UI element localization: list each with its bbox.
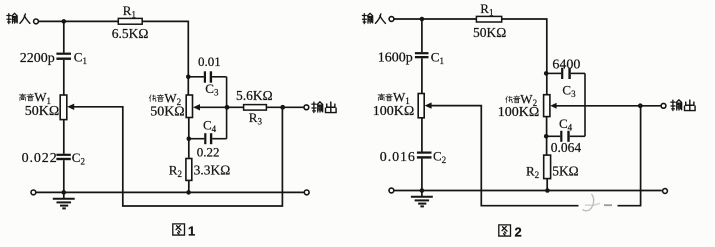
svg-text:50KΩ: 50KΩ	[473, 25, 506, 40]
wire C1 to W1	[63, 60, 65, 95]
wire junction to C1 (fig2)	[421, 19, 423, 52]
node input/C1 junction (fig2)	[420, 17, 425, 22]
node input/C1 junction	[62, 19, 67, 24]
watermark smudge (fades part of loop wire)	[579, 194, 618, 211]
wire W1 wiper loop (down and right to output node)	[73, 107, 282, 206]
label 图2 caption	[499, 225, 522, 240]
wiper arrow W2	[193, 104, 200, 110]
node C3 branch	[186, 75, 191, 80]
svg-text:3.3KΩ: 3.3KΩ	[194, 163, 231, 178]
node output junction	[280, 105, 285, 110]
wire R2 to ground rail	[188, 180, 190, 192]
svg-text:0.022: 0.022	[22, 151, 58, 166]
node C4 branch	[187, 136, 192, 141]
terminal output (fig2)	[661, 103, 666, 108]
svg-text:2200p: 2200p	[20, 51, 55, 66]
wire C4 to bridge vertical (fig2)	[570, 135, 585, 137]
svg-text:1600p: 1600p	[378, 51, 413, 66]
wire R1 to top-right corner	[142, 20, 188, 22]
svg-text:2: 2	[515, 225, 522, 240]
label 低音 (fig2)	[506, 96, 521, 103]
resistor R2 (3.3K)	[186, 159, 192, 181]
node wiper/bridge junction	[225, 105, 230, 110]
label 输出 (fig2 output)	[671, 100, 695, 111]
label 高音 (treble)	[19, 94, 33, 101]
terminal input (fig1)	[34, 19, 39, 24]
svg-text:100KΩ: 100KΩ	[498, 105, 540, 120]
capacitor C3 (6400)	[561, 68, 571, 79]
node R2/ground junction (fig2)	[545, 188, 550, 193]
ground symbol (fig2)	[411, 191, 433, 207]
svg-text:6.5KΩ: 6.5KΩ	[112, 26, 149, 41]
label 图1 caption	[173, 224, 195, 239]
wire C2 to ground rail	[63, 160, 65, 192]
capacitor C4 (0.22)	[204, 133, 212, 144]
wire junction to C1	[63, 21, 65, 52]
node C4 branch (fig2)	[544, 134, 549, 139]
capacitor C3 (0.01)	[204, 71, 212, 82]
wire W2 wiper to R3	[199, 106, 244, 108]
wire input to R1 (fig2)	[394, 18, 477, 20]
svg-text:0.01: 0.01	[198, 54, 221, 69]
wiper arrow W2 (fig2)	[550, 103, 556, 109]
label 输出 (fig1 output)	[312, 102, 336, 113]
wire to C4 (fig2)	[546, 135, 560, 137]
svg-text:0.016: 0.016	[380, 150, 416, 165]
svg-text:50KΩ: 50KΩ	[25, 104, 60, 119]
resistor R1 (50K fig2)	[476, 16, 501, 22]
wire C3 to bridge vertical (fig2)	[571, 72, 585, 74]
wire main vertical from R1 to W2	[187, 21, 189, 95]
terminal ground right (fig2)	[663, 189, 668, 194]
wire C3 to bridge vertical	[212, 76, 227, 78]
wire C1 to W1 (fig2)	[421, 58, 423, 93]
resistor R3 (5.6K)	[244, 105, 267, 111]
wire bridge vertical (fig2)	[584, 73, 586, 136]
label 输入 (fig1 input)	[7, 13, 30, 23]
wire ground rail (fig2)	[394, 190, 662, 192]
wire to C4	[189, 138, 204, 140]
wire ground rail (fig1)	[36, 191, 305, 193]
capacitor C2 (0.016)	[417, 152, 432, 159]
terminal input (fig2)	[389, 17, 394, 22]
wire W2 to C4 branch and R2 (fig2)	[546, 117, 548, 156]
resistor R2 (5K fig2)	[544, 155, 551, 179]
wire W1 wiper loop (fig2)	[430, 106, 640, 206]
wire W1 to C2	[63, 120, 65, 154]
node R2/ground junction	[186, 190, 191, 195]
node C3 branch (fig2)	[544, 71, 549, 76]
terminal ground left (fig2)	[389, 188, 394, 193]
terminal ground right (fig1)	[304, 190, 309, 195]
label 输入 (fig2 input)	[362, 13, 385, 23]
wire R3 to output	[266, 106, 304, 108]
capacitor C4 (0.064)	[560, 131, 570, 142]
wire R1 to top-right corner (fig2)	[502, 18, 547, 20]
label 低音 (bass)	[149, 95, 164, 102]
potentiometer W2	[186, 95, 192, 118]
capacitor C1 (2200p)	[56, 53, 71, 60]
svg-text:0.064: 0.064	[551, 140, 582, 155]
capacitor C2 (0.022)	[56, 154, 70, 161]
svg-text:5.6KΩ: 5.6KΩ	[236, 88, 273, 103]
svg-text:6400: 6400	[552, 57, 580, 72]
svg-text:50KΩ: 50KΩ	[150, 104, 185, 119]
label 高音 (fig2)	[378, 94, 392, 101]
node C2/ground junction	[62, 190, 67, 195]
wire W1 to C2 (fig2)	[421, 118, 423, 152]
wire to C3 (fig2)	[546, 72, 561, 74]
capacitor C1 (1600p)	[415, 52, 429, 58]
wire bridge vertical (fig1)	[226, 77, 228, 139]
wire to C3	[188, 76, 204, 78]
resistor R1 (6.5K)	[118, 18, 142, 24]
wire C4 to bridge vertical	[212, 138, 226, 140]
wiper arrow W1	[67, 104, 74, 110]
wiper arrow W1 (fig2)	[425, 102, 432, 108]
node C2/ground junction (fig2)	[420, 188, 425, 193]
potentiometer W2 (fig2)	[544, 95, 550, 117]
potentiometer W1 (fig2)	[418, 94, 424, 118]
svg-text:5KΩ: 5KΩ	[552, 164, 579, 179]
wire R2 to ground rail (fig2)	[546, 179, 548, 191]
terminal ground left (fig1)	[31, 190, 36, 195]
wire W2 wiper to output (fig2)	[555, 105, 661, 107]
ground symbol (fig1)	[53, 192, 75, 208]
svg-text:100KΩ: 100KΩ	[373, 104, 415, 119]
terminal output (fig1)	[304, 105, 309, 110]
wire input to R1	[38, 20, 118, 22]
wire main vertical from R1 to W2 (fig2)	[546, 18, 548, 95]
potentiometer W1	[60, 95, 67, 120]
node output junction (fig2)	[638, 103, 643, 108]
wire C2 to ground rail (fig2)	[421, 159, 423, 191]
svg-text:0.22: 0.22	[197, 145, 220, 160]
wire W2 to C4 branch and R2	[188, 118, 190, 159]
svg-text:1: 1	[188, 224, 195, 239]
